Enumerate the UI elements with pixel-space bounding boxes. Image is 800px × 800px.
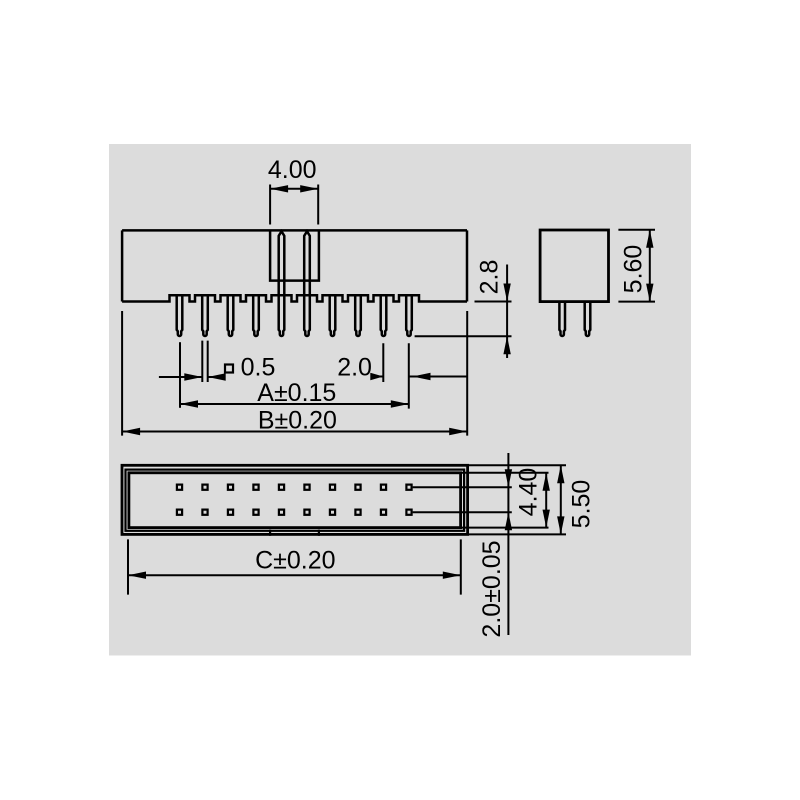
svg-text:5.50: 5.50: [568, 480, 596, 529]
front view body left edge: [121, 230, 124, 301]
bottom view outer rect: [122, 465, 468, 534]
pin 2: [202, 295, 208, 336]
dim 5.60 extension lines: [618, 230, 655, 302]
contact square pin 6 row 2: [304, 510, 309, 515]
svg-text:C±0.20: C±0.20: [255, 547, 335, 575]
pin 4: [253, 295, 259, 336]
pin 8: [355, 295, 361, 336]
contact square pin 7 row 1: [330, 485, 335, 490]
pin 5 (long center pin): [279, 231, 285, 336]
dim 4.40 extension lines: [461, 473, 549, 528]
dim 2.0 extension lines (pin 9, pin 10 centers): [383, 343, 409, 408]
svg-text:4.40: 4.40: [515, 468, 543, 517]
key slot stub right (bottom edge): [318, 530, 320, 536]
pin 7: [330, 295, 336, 336]
contact square pin 1 row 1: [177, 485, 182, 490]
square symbol: [225, 365, 233, 373]
contact square pin 9 row 1: [381, 485, 386, 490]
svg-text:2.0±0.05: 2.0±0.05: [478, 540, 506, 637]
contact square pin 5 row 2: [279, 510, 284, 515]
contact square pin 3 row 2: [228, 510, 233, 515]
contact square pin 8 row 1: [355, 485, 360, 490]
dim 4.00 extension lines: [270, 185, 318, 225]
dim B line and arrows: [122, 431, 467, 433]
svg-text:4.00: 4.00: [268, 156, 317, 184]
contact square pin 5 row 1: [279, 485, 284, 490]
dim A line and arrows: [180, 403, 409, 405]
dim 5.50 line and arrows: [560, 465, 562, 534]
svg-text:2.8: 2.8: [476, 260, 504, 295]
pin 6 (long center pin): [304, 231, 310, 336]
pin 9: [381, 295, 387, 336]
pin 10: [406, 295, 412, 336]
front view body right edge: [466, 230, 469, 301]
svg-text:0.5: 0.5: [241, 354, 276, 382]
pin 1: [177, 295, 183, 336]
contact square pin 2 row 1: [202, 485, 207, 490]
dim 2.8 line and arrows: [506, 265, 508, 359]
key slot stub left (bottom edge): [269, 530, 271, 536]
front view body top edge: [122, 229, 467, 232]
contact square pin 2 row 2: [202, 510, 207, 515]
svg-text:2.0: 2.0: [337, 354, 372, 382]
dim C extension lines: [128, 539, 461, 594]
contact square pin 4 row 1: [253, 485, 258, 490]
svg-text:5.60: 5.60: [620, 245, 648, 294]
side view pin row 1: [559, 302, 565, 336]
contact square pin 1 row 2: [177, 510, 182, 515]
dim B extension lines: [122, 311, 467, 436]
svg-text:A±0.15: A±0.15: [257, 379, 336, 407]
contact square pin 7 row 2: [330, 510, 335, 515]
contact square pin 8 row 2: [355, 510, 360, 515]
contact square pin 4 row 2: [253, 510, 258, 515]
dim 5.50 extension lines: [468, 465, 566, 534]
svg-text:B±0.20: B±0.20: [258, 407, 337, 435]
dim C line and arrows: [128, 574, 461, 576]
dim 4.00 line and arrows: [270, 188, 318, 190]
side view pin row 2: [585, 302, 591, 336]
center polarization block: [270, 230, 319, 280]
contact square pin 3 row 1: [228, 485, 233, 490]
dim 2.8 extension lines: [415, 302, 512, 337]
dim A extension line (pin 1 center): [179, 342, 181, 408]
dim 5.60 line and arrows: [649, 230, 651, 302]
pin 3: [228, 295, 234, 336]
front view body notched bottom edge: [122, 295, 467, 301]
bottom view middle rect: [126, 470, 465, 531]
contact square pin 6 row 1: [304, 485, 309, 490]
dim 2.0 line and arrows: [371, 376, 468, 378]
bottom view inner rect: [129, 473, 461, 528]
contact square pin 9 row 2: [381, 510, 386, 515]
contact square pin 10 row 1: [406, 485, 411, 490]
dim 0.5 extension lines (pin 2 edges): [202, 341, 207, 382]
dim 0.5 line and arrows: [159, 376, 225, 378]
gray drawing background: [109, 144, 691, 656]
contact square pin 10 row 2: [406, 510, 411, 515]
side view body: [540, 230, 608, 302]
dim 4.40 line and arrows: [545, 473, 547, 528]
row extension lines: [413, 487, 512, 512]
dim 2.0+-0.05 line and arrows: [507, 453, 509, 635]
